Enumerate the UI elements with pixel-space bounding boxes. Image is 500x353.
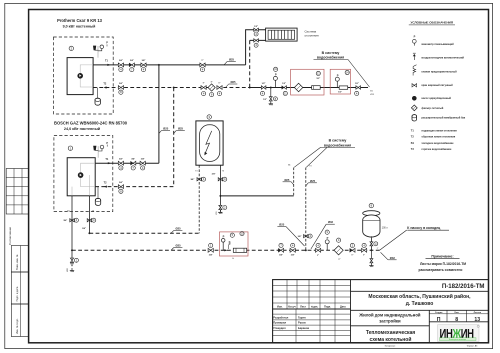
boiler 2 dashed enclosure (54, 136, 113, 212)
svg-text:расширительный мембранный бак: расширительный мембранный бак (422, 117, 466, 120)
svg-text:Ø25: Ø25 (284, 178, 290, 182)
pressure unit red box 2 (330, 69, 350, 94)
junction T3 riser on B1 main (305, 250, 307, 252)
boiler 2 position number 1 (68, 146, 72, 150)
boiler 2 safety group (97, 146, 99, 158)
legend ball valve symbol (412, 84, 417, 87)
left margin table Inv N podl (11, 304, 28, 337)
svg-text:Ø25: Ø25 (230, 80, 236, 84)
svg-text:схема котельной: схема котельной (370, 336, 412, 343)
B1 main diameter label (171, 248, 174, 251)
title block left grid (273, 284, 351, 286)
hydroaccumulator 100L tank (363, 211, 380, 216)
svg-text:П: П (437, 317, 441, 323)
svg-text:воздухоотводчик автоматический: воздухоотводчик автоматический (422, 56, 465, 59)
svg-text:Московская область, Пушкинский: Московская область, Пушкинский район, (368, 293, 471, 300)
junction radiator riser (249, 87, 251, 89)
svg-text:Взам. инв. №: Взам. инв. № (16, 254, 19, 270)
left margin table Podp i data (11, 272, 28, 304)
safety valve pos.13 in box3 (240, 232, 244, 236)
svg-text:P: P (327, 236, 329, 240)
legend air vent symbol (413, 54, 415, 60)
svg-text:Проверил: Проверил (273, 321, 286, 325)
svg-text:Ø32: Ø32 (390, 256, 396, 260)
svg-text:Тепломеханическая: Тепломеханическая (366, 330, 415, 336)
svg-text:3/4": 3/4" (291, 254, 295, 257)
riser T3 to house dashed (305, 168, 307, 251)
svg-text:3/4": 3/4" (130, 59, 134, 62)
project name cell (428, 310, 430, 343)
svg-text:№док.: №док. (311, 306, 319, 309)
legend expansion tank symbol (412, 115, 417, 121)
stage sheet cells (446, 310, 448, 322)
legend pump symbol (412, 96, 416, 100)
pipe T2 boiler 2 dashed (95, 186, 174, 188)
radiator return valve pos.4 (254, 39, 259, 42)
flow arrow T2 boiler 1 (103, 86, 106, 88)
pipe T1 boiler 2 (95, 162, 159, 164)
svg-text:3/4": 3/4" (141, 158, 145, 161)
svg-text:Баранов: Баранов (298, 326, 309, 330)
svg-text:рассматривать совместно: рассматривать совместно (419, 268, 463, 272)
water meter in box1 (312, 86, 321, 90)
svg-text:1/2": 1/2" (355, 83, 359, 85)
svg-text:Гурин: Гурин (298, 316, 306, 320)
B1 riser lower diameter label (286, 227, 305, 246)
svg-text:1": 1" (351, 255, 353, 257)
svg-text:8: 8 (455, 317, 458, 323)
water heater position number 3 (207, 115, 211, 119)
pipe T2 main dashed (93, 87, 250, 89)
boiler 1 expansion vessel (97, 88, 99, 99)
water heater drain valve pos.2 (219, 205, 222, 209)
svg-text:Ø25: Ø25 (310, 179, 316, 183)
boiler 1 position number 2 (69, 46, 73, 50)
boiler 2 expansion vessel (97, 187, 99, 199)
svg-text:Лист: Лист (454, 312, 459, 314)
riser diameter label T2 (174, 131, 177, 134)
svg-text:Инженерные инновации: Инженерные инновации (449, 339, 466, 341)
svg-text:горячее водоснабжение: горячее водоснабжение (422, 148, 452, 151)
svg-text:УСЛОВНЫЕ ОБОЗНАЧЕНИЯ: УСЛОВНЫЕ ОБОЗНАЧЕНИЯ (411, 21, 454, 25)
svg-text:Ø25: Ø25 (279, 223, 285, 227)
svg-text:1": 1" (338, 259, 340, 261)
boiler 1 internal circuit (80, 65, 93, 73)
svg-text:Ø25: Ø25 (178, 127, 184, 131)
boiler 2 internal circuit (81, 163, 96, 172)
svg-text:П-182/2016-ТМ: П-182/2016-ТМ (442, 283, 485, 290)
B1 main diameter 32 label (311, 224, 326, 249)
manometer pos.5 in box3 (230, 233, 234, 237)
svg-text:3/4": 3/4" (63, 219, 67, 222)
svg-text:Protherm Скат 9 KR 13: Protherm Скат 9 KR 13 (57, 18, 103, 23)
svg-text:1/2": 1/2" (316, 78, 320, 80)
reducer in box2 (339, 86, 348, 89)
svg-text:1/2": 1/2" (338, 91, 342, 93)
pipe B1 distribution line (250, 87, 368, 89)
T1 riser to boiler 2 (158, 65, 160, 163)
svg-text:3/4": 3/4" (212, 173, 216, 176)
svg-text:1": 1" (317, 255, 319, 257)
svg-text:3/4": 3/4" (131, 158, 135, 161)
svg-text:3/4": 3/4" (190, 178, 194, 181)
T2 riser to boiler 2 dashed (173, 88, 175, 187)
svg-text:100 л: 100 л (382, 227, 388, 229)
junction T1 riser (158, 64, 160, 66)
boiler 1 pump (78, 73, 83, 78)
svg-text:отопления: отопления (305, 33, 320, 37)
svg-text:обратная линия отопления: обратная линия отопления (422, 136, 456, 139)
svg-text:Ø25: Ø25 (176, 226, 182, 230)
svg-text:клапан предохранительный: клапан предохранительный (422, 70, 458, 73)
strainer pos.12 in box1 (294, 83, 302, 91)
tank connection (370, 238, 372, 250)
svg-text:водоснабжения: водоснабжения (324, 144, 351, 148)
left margin table Vzam inv (11, 246, 28, 273)
svg-text:1": 1" (363, 255, 365, 257)
left margin signature table (6, 169, 28, 215)
svg-text:Формат А3: Формат А3 (467, 345, 478, 348)
svg-text:3/4": 3/4" (82, 227, 86, 230)
svg-text:Ø25: Ø25 (176, 244, 182, 248)
svg-text:манометр показывающий: манометр показывающий (422, 43, 455, 46)
svg-text:3/4": 3/4" (119, 158, 123, 161)
legend strainer symbol (411, 105, 417, 111)
svg-text:P: P (275, 73, 277, 77)
boiler 2 pump (78, 173, 83, 178)
cartridge filter in box3 (233, 248, 246, 252)
riser diameter label T1 (159, 131, 162, 134)
svg-text:фильтр сетчатый: фильтр сетчатый (422, 107, 444, 110)
svg-text:1/2": 1/2" (254, 26, 258, 28)
svg-text:1/2": 1/2" (262, 83, 266, 85)
boiler 1 dashed enclosure (54, 37, 114, 114)
legend safety valve symbol (413, 67, 416, 76)
svg-text:3/4": 3/4" (298, 235, 302, 238)
svg-text:Утвердил: Утвердил (273, 326, 286, 330)
svg-text:3/4": 3/4" (119, 82, 123, 85)
boiler 2 B1 drain valve (71, 250, 73, 258)
svg-text:1": 1" (203, 82, 205, 84)
svg-text:Разработал: Разработал (273, 316, 288, 320)
riser T3 diameter label (306, 183, 309, 186)
svg-text:В систему: В систему (322, 51, 340, 55)
radiator return drop dashed (249, 40, 251, 87)
manometer pos.10 on B1 (274, 67, 278, 71)
pipe B1 cold water main (72, 249, 380, 251)
boiler 1 body (67, 58, 93, 95)
T2 diameter label (226, 84, 229, 88)
pipe T3 horizontal to water heater (89, 232, 199, 234)
svg-text:Согласовано: Согласовано (8, 227, 12, 245)
company logo INZHIN (438, 325, 480, 342)
svg-text:Дата: Дата (340, 306, 346, 309)
pipe T1 main from boiler 1 (93, 64, 246, 66)
manometer pos.9 B1 main (325, 230, 329, 234)
svg-text:Подп.: Подп. (324, 306, 331, 309)
svg-text:1/2": 1/2" (263, 99, 267, 101)
boiler 2 hot water pipe T3 (88, 196, 90, 233)
junction T2 riser (173, 87, 175, 89)
svg-text:3/4": 3/4" (119, 181, 123, 184)
svg-text:1": 1" (201, 60, 203, 62)
svg-text:3/4": 3/4" (142, 59, 146, 62)
B1 main end leader to well pump (380, 230, 407, 250)
water heater right pipe (219, 165, 221, 211)
meter unit red box 1 (291, 69, 324, 95)
svg-text:Уз: Уз (232, 258, 234, 260)
svg-text:Лист: Лист (300, 306, 306, 309)
svg-text:К насосу в колодец: К насосу в колодец (407, 226, 441, 230)
svg-text:Копировал: Копировал (385, 346, 396, 348)
pump station red box 3 (220, 232, 249, 256)
flow arrow B1 main (224, 249, 227, 251)
svg-text:Стадия: Стадия (435, 312, 443, 314)
svg-text:3/4": 3/4" (119, 59, 123, 62)
ball valve pos.4c B1 main (316, 243, 320, 247)
svg-text:3/4": 3/4" (279, 254, 283, 257)
svg-text:1": 1" (218, 82, 220, 84)
riser B1 to house (293, 168, 295, 196)
object address cell (351, 309, 489, 311)
tank position number 9 (369, 203, 373, 207)
svg-text:Примечание:: Примечание: (431, 255, 453, 259)
svg-text:д. Тишково: д. Тишково (406, 301, 434, 307)
svg-text:1/2": 1/2" (282, 83, 286, 85)
T3 pipe diameter label (171, 230, 174, 233)
valve pos.1 B1 main (209, 243, 213, 247)
manometer pos.14 in box2 (345, 70, 349, 74)
pipe T1 rise to radiator (246, 30, 266, 65)
document number cell (351, 290, 489, 292)
svg-text:Жилой дом индивидуальной: Жилой дом индивидуальной (358, 312, 421, 317)
T1 diameter label (224, 61, 227, 65)
strainer pos.4 B1 main (337, 238, 341, 242)
svg-text:холодное водоснабжение: холодное водоснабжение (422, 142, 455, 145)
svg-text:подающая линия отопления: подающая линия отопления (422, 129, 458, 132)
svg-text:13: 13 (474, 317, 480, 323)
boiler 1 safety group (97, 46, 99, 58)
svg-text:Ø15: Ø15 (216, 211, 218, 214)
svg-text:В систему: В систему (329, 139, 347, 143)
svg-text:Подп. и дата: Подп. и дата (16, 286, 19, 301)
svg-text:застройки: застройки (379, 319, 401, 324)
svg-text:Листы марки П-182/2016-ТМ: Листы марки П-182/2016-ТМ (420, 262, 466, 266)
svg-text:кран шаровый латунный: кран шаровый латунный (422, 84, 454, 87)
B1 drain branch (270, 88, 272, 97)
svg-text:24,0 кВт настенный: 24,0 кВт настенный (64, 127, 101, 131)
check valve pos.2 B1 main (350, 243, 354, 247)
riser B1 diameter label (291, 182, 294, 185)
svg-text:P: P (337, 73, 339, 77)
svg-text:Изм.: Изм. (277, 306, 283, 309)
title block outline (273, 280, 489, 343)
water heater left pipe T3 (198, 165, 200, 233)
check valve pos.7 B1 main (279, 243, 283, 247)
ball valve pos.4 B1 main (291, 243, 295, 247)
svg-text:BOSCH GAZ WBN6000-24C RN 8570: BOSCH GAZ WBN6000-24C RN 85700 (54, 121, 128, 126)
svg-text:насос циркуляционный: насос циркуляционный (422, 97, 452, 100)
boiler 2 body (67, 158, 95, 196)
radiator heating system (266, 28, 298, 41)
water heater body (196, 121, 223, 165)
ball valve pos.4d B1 main (362, 243, 366, 247)
svg-text:Листов: Листов (474, 312, 482, 314)
boiler 2 cold water pipe B1 (71, 196, 73, 251)
svg-text:Ø32: Ø32 (328, 220, 334, 224)
svg-text:P: P (223, 235, 225, 239)
svg-text:1": 1" (211, 82, 213, 84)
water heater lightning symbol (205, 131, 212, 154)
B1 main diameter 32 end label (381, 252, 389, 259)
radiator return horizontal (250, 39, 266, 41)
svg-text:9,0 кВт настенный: 9,0 кВт настенный (63, 25, 96, 29)
svg-text:водоснабжения: водоснабжения (317, 56, 344, 60)
flow arrow T1 boiler 1 (107, 64, 110, 66)
svg-text:Ø25: Ø25 (229, 57, 235, 61)
svg-text:3/4": 3/4" (209, 254, 213, 257)
svg-text:Кол.уч: Кол.уч (288, 307, 296, 309)
svg-text:Русов: Русов (298, 321, 306, 325)
svg-text:Ø25: Ø25 (163, 127, 169, 131)
drain branch at tank junction (370, 250, 372, 258)
svg-text:Инв. № подл.: Инв. № подл. (16, 318, 19, 334)
pipe from water heater to B1 riser (220, 195, 293, 197)
